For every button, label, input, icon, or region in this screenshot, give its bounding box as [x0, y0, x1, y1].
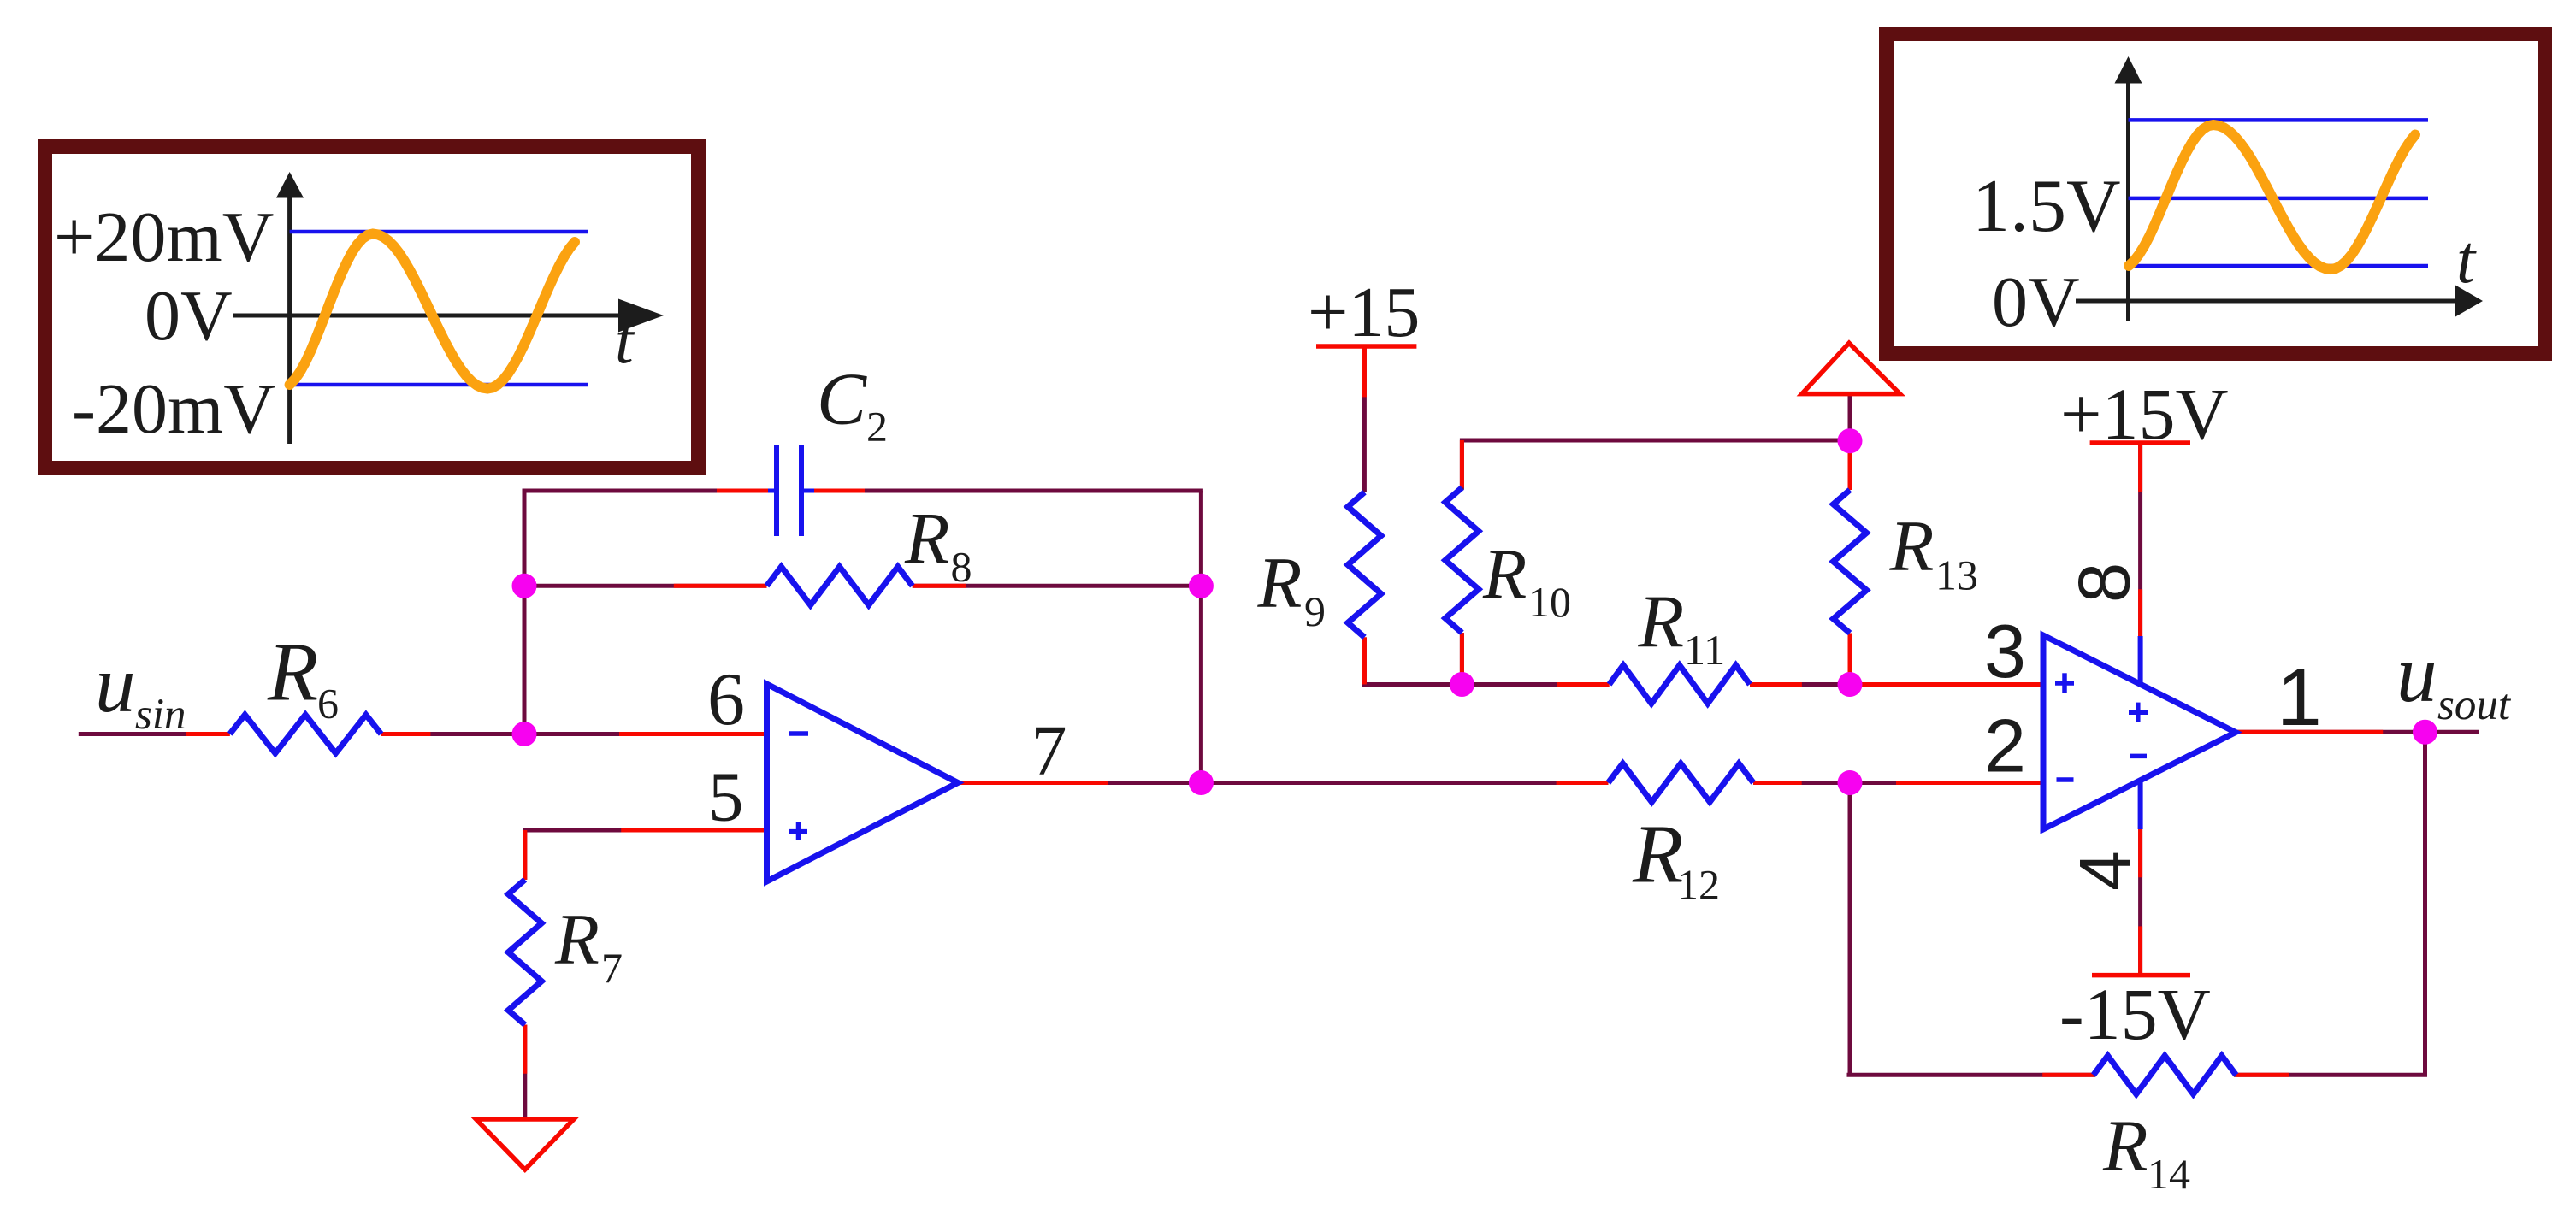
resistor R13	[1834, 490, 1867, 634]
svg-text:sin: sin	[135, 691, 186, 739]
svg-text:2: 2	[866, 403, 888, 451]
inset2 top level line	[2129, 118, 2429, 122]
wire right vertical of feedback loop	[1199, 491, 1203, 783]
wire pin2 node down to R14	[1848, 783, 1852, 1076]
inset1 x-axis 0V line	[233, 314, 619, 318]
wire input row u_sin left of R6	[79, 732, 230, 736]
svg-text:R: R	[2102, 1105, 2148, 1187]
svg-text:1.5V: 1.5V	[1972, 165, 2121, 248]
U2 minus symbol outer (pin2)	[2057, 777, 2074, 782]
svg-text:-15V: -15V	[2059, 973, 2211, 1055]
node R8 right junction	[1189, 574, 1214, 598]
resistor R7	[508, 880, 541, 1025]
node u_sout junction	[2413, 720, 2437, 745]
svg-text:R: R	[1482, 534, 1527, 614]
red leads R9 branch	[1362, 345, 1367, 397]
svg-text:9: 9	[1304, 587, 1326, 635]
svg-text:+15: +15	[1308, 273, 1420, 352]
node +15V arrow junction	[1838, 428, 1863, 453]
wire R14 to u_sout vertical	[2236, 1073, 2425, 1077]
inset2 y-axis	[2126, 81, 2130, 321]
wire R8 feedback row right	[913, 584, 1202, 588]
inset2 sine wave	[2129, 125, 2415, 269]
svg-text:sout: sout	[2437, 681, 2512, 729]
svg-text:5: 5	[708, 757, 744, 836]
wire R10 bottom leg	[1460, 633, 1464, 684]
svg-text:R: R	[267, 627, 318, 718]
op-amp U1	[767, 684, 959, 881]
red lead U2 output	[2236, 730, 2383, 734]
wire R8 feedback row left	[524, 584, 767, 588]
red lead below R7	[523, 1025, 527, 1074]
svg-text:C: C	[817, 357, 867, 440]
svg-text:6: 6	[707, 658, 745, 741]
svg-text:1: 1	[2277, 652, 2322, 743]
red+blue leads pin8	[2138, 443, 2142, 492]
wire R13 bottom leg	[1848, 634, 1852, 685]
wire u_sout node down	[2423, 732, 2427, 1075]
node U1 pin6 junction	[512, 722, 537, 746]
svg-text:8: 8	[951, 543, 972, 591]
ground symbol	[476, 1119, 575, 1170]
U2 plus symbol outer (pin3)	[2055, 681, 2074, 686]
red leads R13	[1848, 441, 1852, 490]
node A R9/R10 junction	[1450, 672, 1474, 697]
svg-text:6: 6	[317, 680, 339, 728]
svg-text:0V: 0V	[145, 276, 233, 356]
U2 plus symbol inner	[2129, 710, 2148, 716]
op-amp U2	[2043, 635, 2236, 829]
wire arrow stub	[1848, 394, 1852, 441]
C2 blue lead stubs	[768, 489, 775, 493]
svg-text:2: 2	[1984, 704, 2026, 788]
svg-text:4: 4	[2065, 851, 2145, 891]
wire pin5 down to R7	[523, 830, 527, 880]
wire R13 top leg	[1848, 441, 1852, 490]
inset2 bottom level line	[2129, 264, 2429, 268]
red leads R10 branch	[1460, 440, 1464, 487]
svg-text:3: 3	[1984, 609, 2026, 693]
svg-text:R: R	[1889, 506, 1935, 586]
node U2 pin2 junction	[1838, 770, 1863, 795]
svg-text:u: u	[95, 639, 136, 729]
svg-text:13: 13	[1935, 551, 1978, 599]
capacitor C2	[774, 445, 779, 536]
svg-text:R: R	[1257, 543, 1303, 623]
svg-text:10: 10	[1528, 578, 1571, 626]
red lead segments C2 row	[717, 489, 768, 493]
red lead segments input row	[186, 732, 230, 736]
inset1 +20mV level line	[290, 230, 588, 234]
red lead segments R8 row	[674, 584, 767, 588]
wire C2 top feedback row right	[802, 489, 1202, 493]
inset2 x-axis 0V line	[2076, 299, 2456, 304]
svg-text:8: 8	[2065, 563, 2146, 603]
resistor R9	[1348, 492, 1381, 638]
inset1 sine wave	[290, 234, 575, 389]
wire U2 pin8 supply	[2138, 443, 2142, 684]
output waveform inset box	[1887, 34, 2545, 354]
svg-text:+15V: +15V	[2060, 373, 2229, 455]
svg-text:t: t	[615, 303, 635, 377]
wire U1 pin5 row	[525, 828, 767, 833]
+15V supply bar	[2090, 440, 2190, 445]
wire left vertical of feedback loop	[523, 491, 527, 734]
inset2 1.5V level line	[2129, 197, 2429, 201]
U2 minus symbol inner	[2130, 754, 2147, 759]
wire +15 bar down to R9	[1362, 345, 1367, 492]
red lead segments output row	[958, 781, 1108, 785]
svg-text:t: t	[2456, 222, 2477, 298]
svg-text:7: 7	[1031, 711, 1067, 791]
resistor R8	[767, 567, 913, 605]
resistor R10	[1445, 487, 1479, 633]
red leads R14	[2042, 1073, 2094, 1077]
wire R11 to U2 pin3	[1750, 682, 2043, 687]
resistor R11	[1610, 665, 1750, 704]
wire R9 corner to node A	[1364, 682, 1462, 687]
-15V supply bar	[2092, 973, 2190, 978]
inset1 -20mV level line	[290, 383, 588, 387]
wire node A to R11	[1462, 682, 1609, 687]
svg-text:u: u	[2396, 628, 2437, 719]
resistor R14	[2094, 1056, 2236, 1094]
input waveform inset box	[45, 147, 699, 469]
node R8 left junction	[512, 574, 537, 598]
wire R7 to ground	[523, 1025, 527, 1119]
wire bottom row left of R14	[1849, 1073, 2094, 1077]
wire U2 output row	[2236, 730, 2479, 734]
svg-text:+20mV: +20mV	[54, 197, 274, 277]
blue+red leads pin4	[2138, 781, 2143, 829]
red leads R11 row	[1557, 682, 1610, 687]
svg-text:R: R	[554, 899, 600, 980]
wire U2 pin4 supply	[2138, 781, 2142, 975]
wire R10 top leg	[1460, 440, 1464, 487]
resistor R6	[230, 715, 381, 753]
+15 supply bar	[1316, 344, 1416, 349]
svg-text:R: R	[904, 497, 950, 579]
svg-text:-20mV: -20mV	[72, 369, 275, 449]
svg-text:0V: 0V	[1992, 262, 2080, 342]
wire input row R6 to op-amp U1 pin6	[381, 732, 767, 736]
red lead segments pin5	[621, 828, 766, 833]
svg-text:12: 12	[1677, 861, 1720, 909]
svg-text:R: R	[1638, 581, 1685, 664]
svg-text:7: 7	[601, 944, 623, 992]
wire R12 to U2 pin2	[1753, 781, 2043, 785]
U1 minus symbol	[789, 731, 808, 736]
node U2 pin3 junction	[1838, 672, 1863, 697]
wire U1 output row left of R12	[958, 781, 1608, 785]
svg-text:R: R	[1632, 809, 1683, 900]
inset1 y-axis	[287, 196, 292, 444]
wire R9 bottom leg	[1362, 637, 1367, 684]
svg-text:14: 14	[2148, 1150, 2190, 1198]
U1 plus symbol	[789, 829, 807, 834]
wire C2 top feedback row left	[524, 489, 774, 493]
+15V arrow supply symbol	[1802, 343, 1900, 393]
resistor R12	[1608, 763, 1753, 802]
svg-text:11: 11	[1684, 626, 1725, 674]
node U1 output junction	[1189, 770, 1214, 795]
wire R10 top to +15V arrow node	[1462, 439, 1850, 443]
